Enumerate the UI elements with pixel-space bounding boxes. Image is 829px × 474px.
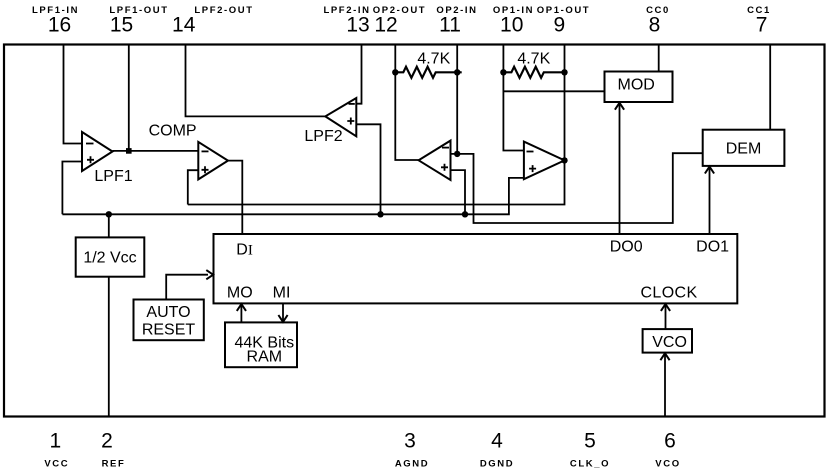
svg-text:12: 12: [374, 14, 397, 37]
svg-text:9: 9: [554, 14, 566, 37]
svg-text:6: 6: [664, 430, 676, 453]
node OP1 output junction: [561, 157, 567, 163]
wire controller to MOD (arrow): [615, 103, 624, 234]
op-amp COMP: [149, 123, 228, 180]
wire COMP plus to feedback line A: [188, 170, 199, 204]
svg-text:MI: MI: [273, 285, 291, 302]
svg-text:MOD: MOD: [618, 77, 655, 94]
pin 6 label VCO: [655, 430, 680, 470]
wire RAM MO to controller (arrow): [237, 304, 246, 322]
svg-text:CLOCK: CLOCK: [640, 285, 697, 302]
svg-text:AUTO: AUTO: [146, 304, 190, 321]
resistor R1 4.7K: [392, 51, 462, 78]
svg-text:10: 10: [500, 14, 523, 37]
op-amp OP2: [419, 141, 451, 180]
wire pin7 to DEM: [769, 45, 771, 130]
wire LPF1 output to COMP minus input: [113, 150, 199, 152]
svg-text:VCO: VCO: [655, 459, 680, 470]
pin 8 label CC0: [646, 5, 670, 37]
wire analog reference bus: [62, 178, 524, 214]
wire pin16 to LPF1 minus input: [64, 45, 83, 144]
svg-text:AGND: AGND: [395, 459, 429, 470]
svg-text:RESET: RESET: [142, 322, 196, 339]
svg-text:DO0: DO0: [610, 239, 643, 256]
svg-text:1/2 Vcc: 1/2 Vcc: [83, 250, 136, 267]
svg-text:14: 14: [172, 14, 196, 37]
op-amp LPF2: [304, 98, 356, 145]
pin 15 label LPF1-OUT: [109, 5, 168, 37]
wire pin10 to OP1 minus input: [503, 45, 524, 151]
svg-text:DGND: DGND: [480, 459, 514, 470]
pin 16 label LPF1-IN: [32, 5, 79, 37]
svg-text:4.7K: 4.7K: [417, 51, 450, 68]
wire OP2 minus node to DEM input: [457, 153, 703, 223]
pin 7 label CC1: [747, 5, 771, 37]
outer border: [4, 45, 825, 417]
svg-text:LPF1: LPF1: [94, 168, 132, 185]
pin 2 label REF: [101, 430, 125, 470]
wire pin11 to OP2 minus input: [451, 45, 458, 154]
wire LPF2 plus to bus: [356, 124, 380, 214]
op-amp OP1: [524, 142, 565, 180]
svg-text:2: 2: [101, 430, 113, 453]
svg-text:4.7K: 4.7K: [517, 51, 550, 68]
wire pin8 to MOD: [658, 45, 660, 72]
pin 12 label OP2-OUT: [373, 5, 426, 37]
wire VCO to CLOCK (arrow): [661, 304, 670, 329]
wire LPF1 plus input to bus: [62, 162, 82, 215]
svg-text:11: 11: [439, 14, 461, 37]
pin 14 label LPF2-OUT: [172, 5, 254, 37]
svg-text:DO1: DO1: [696, 239, 729, 256]
wire pin12 to OP2 output: [395, 45, 418, 161]
block VCO: [643, 329, 692, 353]
node bus to LPF2 plus junction: [377, 211, 383, 217]
node bus to OP2 plus junction: [462, 211, 468, 217]
node OP2 minus junction: [454, 151, 460, 157]
svg-text:LPF2-OUT: LPF2-OUT: [194, 5, 253, 16]
wire pin6 to VCO (arrow): [660, 353, 669, 416]
block MOD: [605, 72, 673, 103]
pin 4 label DGND: [480, 430, 514, 470]
svg-text:1: 1: [49, 430, 61, 453]
svg-text:RAM: RAM: [247, 349, 283, 366]
wire OP1 node to MOD input: [503, 90, 604, 92]
svg-text:VCO: VCO: [652, 334, 687, 351]
svg-text:DEM: DEM: [726, 141, 762, 158]
wire controller to DEM (arrow): [705, 167, 714, 234]
svg-text:LPF2: LPF2: [304, 128, 342, 145]
wire pin13 to LPF2 minus input: [356, 45, 361, 104]
wire pin15 to LPF1 output node: [128, 45, 130, 151]
node bus to 1/2 Vcc junction: [106, 211, 112, 217]
svg-text:VCC: VCC: [44, 459, 69, 470]
block DEM: [703, 130, 785, 166]
svg-text:13: 13: [346, 14, 369, 37]
pin 9 label OP1-OUT: [537, 5, 590, 37]
svg-text:MO: MO: [227, 285, 253, 302]
svg-text:8: 8: [649, 14, 661, 37]
pin 5 label CLK_O: [570, 430, 610, 470]
svg-text:3: 3: [404, 430, 416, 453]
svg-text:COMP: COMP: [149, 123, 197, 140]
block 1/2 Vcc: [76, 237, 145, 276]
resistor R2 4.7K: [500, 51, 568, 78]
svg-text:DI: DI: [236, 242, 253, 259]
svg-text:7: 7: [756, 14, 768, 37]
pin 10 label OP1-IN: [493, 5, 534, 37]
pin 1 label VCC: [44, 430, 69, 470]
block controller: [214, 234, 738, 303]
svg-text:4: 4: [491, 430, 503, 453]
pin 13 label LPF2-IN: [323, 5, 370, 37]
svg-text:CLK_O: CLK_O: [570, 459, 610, 470]
block AUTO RESET: [134, 300, 204, 341]
wire pin14 to LPF2 output: [186, 45, 326, 117]
wire AUTO RESET to controller (arrow): [166, 270, 213, 299]
op-amp LPF1: [82, 132, 133, 185]
wire COMP output to DI input of controller: [228, 161, 242, 234]
wire controller MI to RAM (arrow): [278, 303, 287, 322]
wire 1/2 Vcc to pin2 REF: [108, 277, 110, 417]
block 44K Bits RAM: [225, 322, 297, 367]
node LPF1 output junction (square): [126, 148, 132, 154]
wire OP2 plus to bus: [451, 170, 466, 214]
svg-text:15: 15: [110, 14, 133, 37]
svg-text:5: 5: [584, 430, 596, 453]
wire bus to 1/2 Vcc: [108, 214, 110, 237]
svg-text:REF: REF: [102, 459, 126, 470]
svg-text:16: 16: [48, 14, 71, 37]
pin 3 label AGND: [395, 430, 429, 470]
wire pin9 OP1 output to COMP plus (line A): [188, 45, 565, 205]
pin 11 label OP2-IN: [436, 5, 477, 37]
